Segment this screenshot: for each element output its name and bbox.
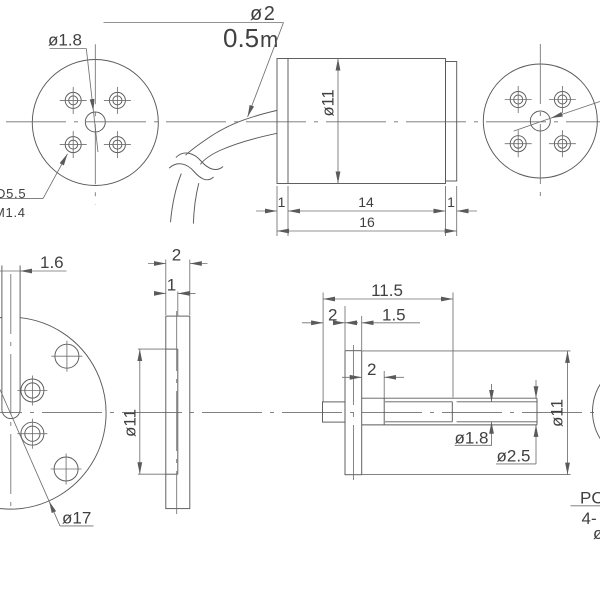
dim 2 (front shaft section) [342, 360, 404, 398]
svg-text:1: 1 [167, 276, 176, 295]
svg-text:ø11: ø11 [320, 89, 338, 116]
label underline [571, 505, 600, 507]
dim 2 (flange thickness) [148, 246, 208, 316]
svg-text:1: 1 [447, 194, 455, 210]
shaft outer bottom line [362, 424, 537, 426]
horizontal centerline (continuous across bottom row) [0, 412, 600, 414]
shaft inner bottom line segment A [385, 421, 452, 423]
screw hole top-right [104, 87, 131, 114]
svg-text:1.6: 1.6 [40, 253, 64, 272]
dim 2 (stub length) and 1.5 (disc thickness) [302, 306, 420, 351]
lead wire lower edge [200, 133, 277, 164]
dimension extension lines below body [276, 186, 278, 236]
wire slot right edge [19, 266, 21, 410]
svg-text:ø2.5: ø2.5 [497, 447, 531, 466]
label ø2.5 (shaft) [496, 380, 536, 466]
label PCD5.5 / 4-M1.4 (cut at left edge) with leader to screw hole [0, 154, 68, 220]
svg-text:14: 14 [358, 194, 374, 210]
front cap line (1mm) [287, 59, 289, 184]
screw hole bottom-right [104, 131, 131, 158]
screw hole top-left [60, 87, 87, 114]
svg-text:ø2: ø2 [250, 3, 276, 25]
shaft outer top line (ø2.5) [362, 397, 537, 399]
flange hole lower-right [51, 454, 82, 485]
motor body outline [277, 59, 446, 184]
svg-text:M1.4: M1.4 [0, 205, 26, 220]
svg-text:11.5: 11.5 [371, 281, 403, 300]
vertical centerline [94, 44, 96, 204]
screw hole bottom-right [549, 130, 576, 157]
recess top edge [166, 348, 178, 350]
inner section end edge [451, 402, 453, 422]
label ø1.8 with leader to center hole [48, 31, 98, 153]
svg-text:1.5: 1.5 [382, 306, 406, 325]
wire tail left line [171, 174, 182, 223]
wire slot rounded bottom [2, 410, 20, 419]
vertical centerline [176, 311, 178, 514]
horizontal centerline (continuous across top row) [2, 121, 600, 123]
dim ø11 (flange dia) [362, 351, 571, 475]
vertical centerline [539, 44, 541, 204]
dia 11 dimension line (vertical inside body) [320, 59, 339, 184]
rear face outer circle [483, 64, 597, 178]
center hole [530, 111, 550, 131]
dim row 1-14-1 [256, 194, 477, 211]
svg-text:0.5: 0.5 [223, 23, 259, 53]
dim ø11 (recess diameter) [120, 349, 166, 474]
wire break wave 2 [169, 164, 214, 180]
svg-text:ø17: ø17 [62, 509, 91, 528]
recess floor line [177, 349, 179, 474]
label ø1.8 (shaft) [455, 384, 493, 448]
dim 11.5 [323, 281, 453, 402]
svg-text:ø11: ø11 [548, 399, 567, 427]
screw hole top-right [549, 86, 576, 113]
rear shaft stub [323, 402, 346, 422]
dim 16 [277, 214, 457, 231]
mounting hole upper (double circle) [17, 376, 47, 406]
screw hole top-left [505, 86, 532, 113]
lead wire upper edge [186, 110, 278, 155]
disc vertical centerline [352, 345, 354, 480]
flange hole upper-right [51, 341, 82, 372]
center shaft hole (ø1.8) [85, 112, 105, 132]
flange outer circle ø17 (with slot gap at top) [0, 318, 106, 510]
label ø2 / 0.5m with leader to wire [104, 3, 284, 117]
flange disc outline [166, 316, 190, 509]
label ø17 with leader to flange edge [0, 390, 94, 528]
svg-text:2: 2 [367, 360, 376, 379]
screw hole bottom-left [505, 130, 532, 157]
front face outer circle [32, 60, 158, 186]
dim 1.6 (slot width) [0, 253, 67, 272]
shaft inner bottom line segment B [457, 421, 537, 423]
screw hole bottom-left [60, 131, 87, 158]
svg-text:PC: PC [580, 489, 600, 508]
svg-text:1: 1 [278, 194, 286, 210]
wire tail right line [193, 183, 198, 224]
flange disc [345, 351, 362, 475]
dim 1 (recess depth) [155, 276, 196, 316]
mounting hole lower (double circle) [17, 419, 47, 449]
wire slot left edge [1, 266, 3, 410]
svg-text:ø: ø [593, 524, 600, 543]
wire break wave 1 [176, 153, 223, 170]
svg-text:16: 16 [359, 214, 375, 230]
svg-text:2: 2 [172, 246, 181, 265]
rear end cap [446, 62, 457, 182]
shaft step at 2mm [383, 398, 385, 425]
shaft end face [536, 398, 538, 425]
recess bottom edge [166, 473, 178, 475]
svg-text:ø1.8: ø1.8 [48, 31, 82, 50]
svg-text:m: m [260, 27, 278, 52]
vertical centerline [10, 274, 12, 513]
shaft inner top line segment B [457, 401, 537, 403]
partial circle (cut by image edge) [593, 360, 600, 464]
svg-text:ø1.8: ø1.8 [455, 429, 489, 448]
shaft inner top line (ø1.8) segment A [385, 401, 452, 403]
svg-text:2: 2 [328, 306, 337, 325]
svg-text:ø11: ø11 [120, 409, 139, 437]
leader line into center hole (label off image right) [514, 102, 600, 132]
